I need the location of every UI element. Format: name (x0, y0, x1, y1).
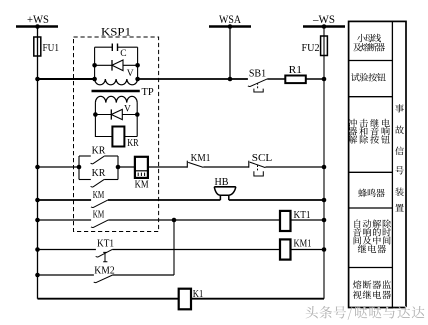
svg-text:KT1: KT1 (97, 237, 114, 249)
legend row 6: fuse monitoring relay (353, 280, 391, 299)
svg-text:+WS: +WS (27, 14, 49, 26)
svg-text:–WS: –WS (312, 14, 335, 26)
wire row5 left (38, 274, 94, 276)
wire row1 mid (148, 166, 187, 168)
wire row2 left (38, 199, 92, 201)
buzzer HB (214, 177, 236, 200)
resistor R1 (267, 64, 326, 83)
wire right feeder from -WS (323, 27, 325, 299)
svg-text:KR: KR (127, 137, 139, 149)
svg-text:SB1: SB1 (249, 67, 266, 79)
wire junction drop x=174 (173, 220, 175, 275)
wire main row left (38, 78, 95, 80)
fuse FU1 (34, 37, 59, 56)
wire main row from transformer to SB1 (138, 78, 248, 80)
wire row4 right (291, 249, 325, 251)
contact KM row3 (91, 208, 108, 227)
svg-text:KM1: KM1 (294, 237, 312, 249)
wire row1 (203, 166, 249, 168)
wire row3 left (38, 219, 92, 221)
svg-text:KM: KM (135, 179, 149, 191)
svg-text:FU1: FU1 (43, 42, 60, 54)
contact KM2 (94, 264, 115, 282)
bus +WS (16, 14, 58, 29)
legend row 3: impact relay and sound release button (348, 119, 389, 144)
wire row4 mid (112, 249, 280, 251)
timed contact KT1 (96, 237, 114, 261)
transformer TP secondary winding (95, 96, 137, 102)
wire left feeder from +WS (37, 27, 39, 299)
diode V upper (92, 60, 140, 79)
svg-text:V: V (124, 104, 131, 114)
legend row 4: buzzer (358, 189, 384, 198)
svg-text:KM: KM (93, 208, 105, 220)
impact relay unit KSP1 dashed outline (74, 27, 159, 232)
relay coil KM1 (280, 237, 312, 259)
transformer TP primary winding (92, 77, 140, 85)
wire row3 right (291, 219, 325, 221)
wire row5 to junction (113, 274, 174, 276)
svg-text:KSP1: KSP1 (101, 27, 131, 39)
diode V lower (95, 104, 137, 119)
bus WSA (209, 14, 251, 29)
svg-text:KR: KR (92, 167, 106, 179)
wire row4 left (38, 249, 96, 251)
svg-text:KM: KM (93, 189, 105, 201)
svg-text:KT1: KT1 (294, 209, 311, 221)
transformer TP core (92, 86, 154, 98)
wire secondary right leg (124, 103, 137, 137)
legend row 2: test button (351, 73, 386, 82)
legend row 5: auto sound release timer and intermediate relay (353, 219, 391, 253)
contact KR lower (79, 167, 118, 187)
svg-text:TP: TP (142, 86, 154, 98)
wire bottom row left (38, 298, 179, 300)
wire secondary left leg (95, 103, 112, 137)
relay coil K1 (179, 288, 204, 309)
svg-text:SCL: SCL (252, 152, 273, 164)
svg-text:KM1: KM1 (191, 152, 211, 164)
svg-text:KM2: KM2 (94, 264, 114, 276)
contact KR upper (77, 144, 121, 179)
relay coil KR (112, 127, 139, 150)
wire row3 mid (108, 219, 280, 221)
bus -WS (303, 14, 345, 29)
release button SCL (249, 152, 273, 176)
wire row2 right (229, 199, 324, 201)
fuse FU2 (302, 36, 328, 56)
capacitor C (95, 44, 138, 80)
svg-text:HB: HB (215, 177, 229, 188)
wire bottom row right (191, 298, 324, 300)
test button SB1 (248, 67, 267, 92)
svg-text:C: C (120, 49, 126, 59)
svg-text:KR: KR (92, 144, 106, 156)
svg-text:V: V (127, 69, 134, 79)
legend table frame (349, 21, 406, 307)
timer coil KT1 (280, 209, 311, 231)
svg-text:FU2: FU2 (302, 42, 320, 54)
contact KM row2 (91, 189, 108, 208)
svg-text:WSA: WSA (219, 14, 242, 26)
legend row 1: bus-wire and fuse (353, 34, 385, 52)
wire row1 left (38, 166, 80, 168)
wire row2 to buzzer (108, 199, 220, 201)
relay coil KM (slow release) (118, 157, 149, 191)
wire WSA drop (229, 27, 231, 80)
contact KM1 (187, 152, 210, 168)
wire row1 right (265, 166, 324, 168)
watermark toutiao (306, 306, 426, 321)
svg-text:R1: R1 (289, 64, 302, 76)
legend right column: accident signal device (395, 104, 404, 212)
